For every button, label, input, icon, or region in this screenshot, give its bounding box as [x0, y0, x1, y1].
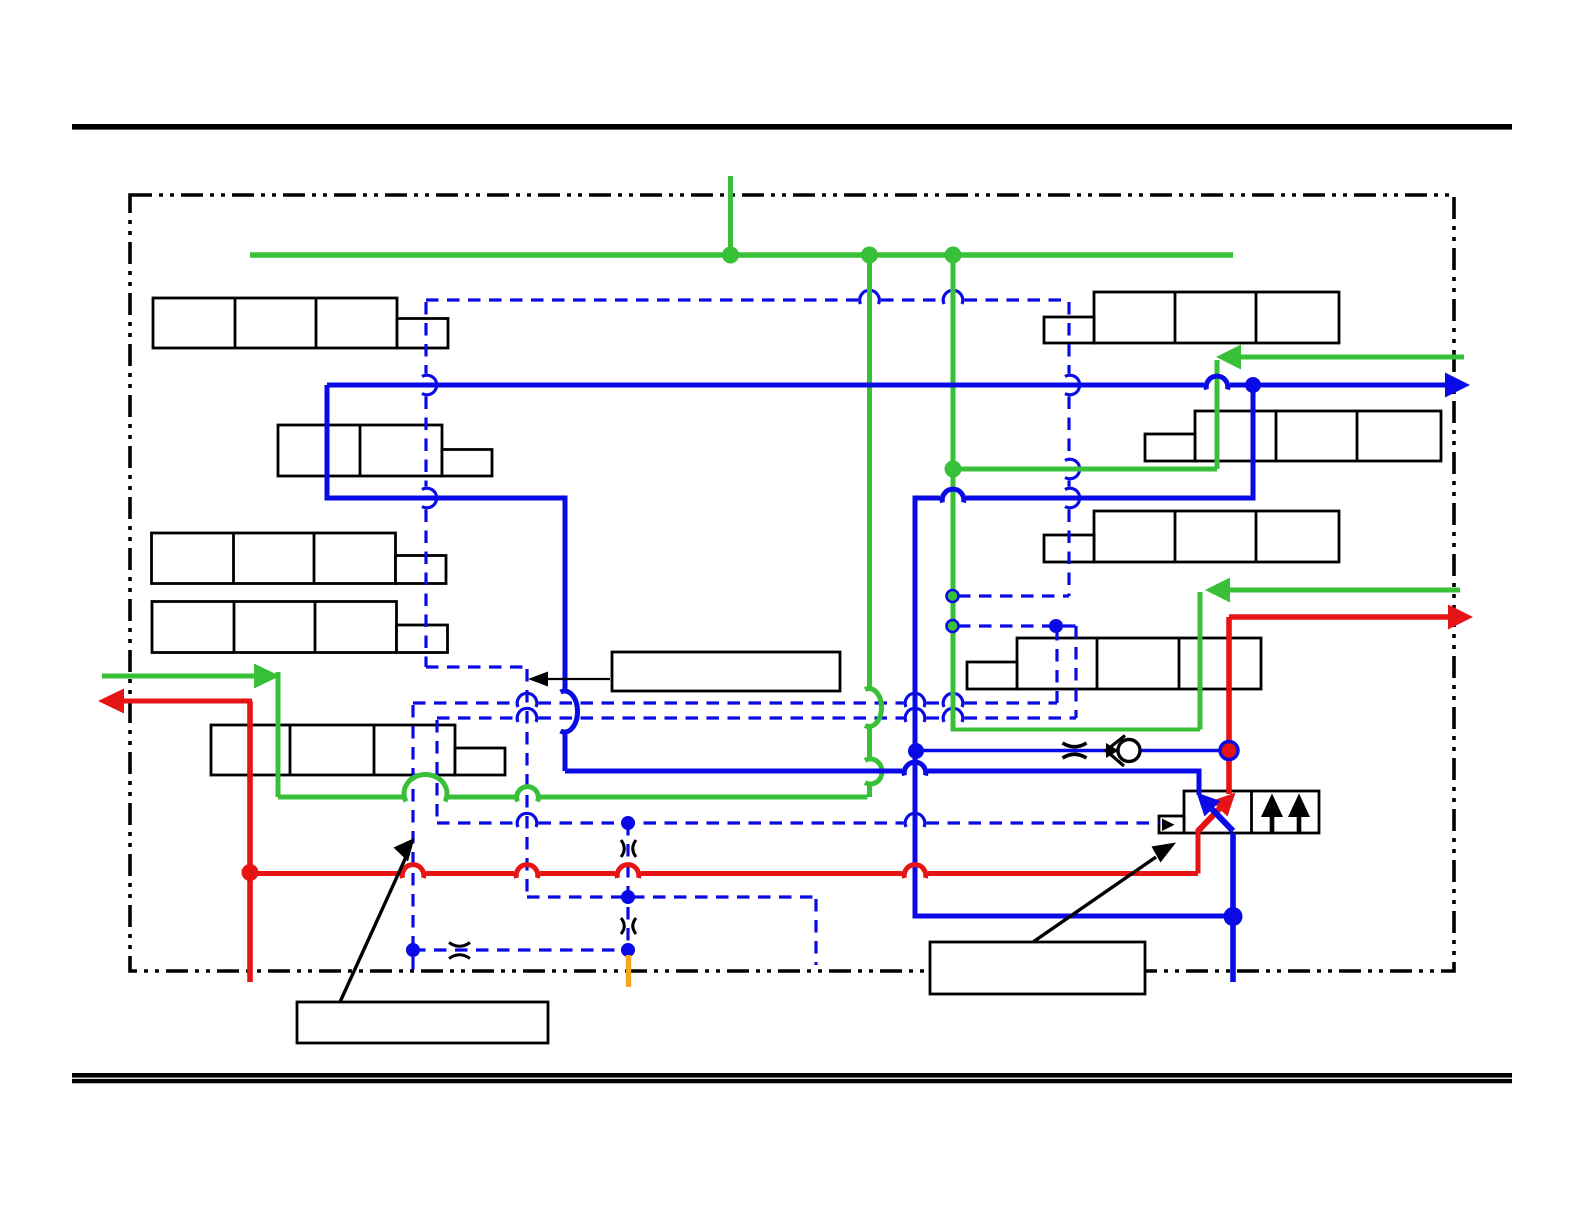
green junction dot C [945, 247, 962, 264]
wire dashed solenoid row y823 [437, 821, 516, 824]
solid hop arcs of dashed network [422, 290, 1080, 827]
red return line right [1229, 614, 1449, 620]
label box RB4 [1017, 638, 1261, 689]
wire dashed row y950 [413, 948, 628, 951]
check valve CV1 [1118, 740, 1140, 762]
orange drain stub [626, 955, 631, 987]
green riser hop over dashed rows [865, 689, 882, 727]
hop x426 over blue y498 [422, 488, 437, 508]
green run y469 [953, 467, 1217, 472]
wire dashed drop x1057 [1055, 628, 1058, 703]
wire dashed node row y626 [958, 624, 1076, 627]
wire dashed node row y596 [958, 594, 1069, 597]
wire dashed row y897 [527, 895, 816, 898]
label box LB1 [153, 298, 397, 348]
wire dashed vertical x426 [424, 302, 427, 374]
green return line 2 right [1229, 588, 1460, 593]
green junction dot B [861, 247, 878, 264]
valve V1 crossed flow: red diagonal [1198, 804, 1224, 831]
wire dashed drop x816 [814, 899, 817, 965]
orifice O1 on check line [1063, 743, 1087, 758]
label box LBB1 [297, 1002, 548, 1043]
hops y823 over x527 x915 [517, 813, 537, 827]
blue right branch from dot y385 [966, 385, 1253, 498]
blue junction dot x915 y751 [908, 743, 924, 759]
node dot x628 y823 [621, 816, 635, 830]
label box LB4 [152, 602, 397, 653]
green junction dot D [945, 461, 962, 478]
blue check-valve line y750.5 [915, 749, 1229, 753]
hop x1069 over blue y498 [1065, 488, 1080, 508]
valve V1 body [1184, 791, 1319, 833]
valve V1 crossed flow: blue diagonal [1207, 804, 1233, 831]
blue x565 hop arc over dashed rows [561, 691, 578, 732]
blue y498 hop over green x953 [942, 489, 964, 502]
label box LBmid [612, 652, 840, 691]
blue branch left riser path [327, 385, 565, 690]
leader arrow to valve-position dashed line [547, 678, 610, 680]
label box RB2 [1195, 411, 1441, 461]
wire dashed long row y703 [413, 701, 516, 704]
orifice O4 horizontal x459 y950 [449, 943, 470, 959]
red-blue junction dot at check line [1220, 742, 1238, 760]
green sensor node dot F [947, 620, 959, 632]
blue junction dot x1233 y916 [1224, 907, 1243, 926]
hops y703 over x527 x915 x953 [517, 693, 537, 707]
orifice O3 vertical x628 y926 [621, 918, 636, 934]
green return line top right [1240, 355, 1464, 360]
green junction dot A [722, 247, 739, 264]
label box LB5 [211, 725, 455, 775]
label box LBB2 [930, 942, 1145, 994]
bottom double rule [72, 1073, 1512, 1078]
wire dashed vertical x413 [411, 705, 414, 971]
leader arrow from LBB2 to valve [1033, 857, 1156, 942]
red outlet arrowhead left [98, 689, 124, 714]
blue junction dot y385 [1245, 377, 1261, 393]
wire dashed vertical x527 [525, 669, 528, 897]
hops y718 over x527 x915 x953 [517, 708, 537, 722]
red junction dot x250 y872 [242, 864, 259, 881]
red outlet line left [123, 699, 252, 704]
green riser x1217 [1215, 360, 1220, 469]
red riser from valve top [1226, 617, 1232, 794]
label box RB1 [1094, 292, 1339, 343]
wire dashed long row y718 [437, 716, 516, 719]
node dot x413 y950 [406, 943, 420, 957]
green inlet arrowhead [254, 664, 280, 689]
valve V1 pilot box [1159, 816, 1184, 833]
dash-dot-dot unit border [130, 195, 1454, 971]
green riser hop over blue y771 [865, 759, 882, 784]
green run y729.5 [951, 728, 1201, 732]
blue return arrowhead right [1445, 373, 1470, 398]
green hop y797 over x413 x437 [404, 774, 447, 801]
hop x1069 over blue y385 [1065, 375, 1080, 395]
node dot x628 y950 [621, 943, 635, 957]
green return arrowhead 1 [1216, 345, 1241, 370]
green hop y797 over x527 [517, 787, 539, 802]
wire dashed node column x628 [626, 823, 629, 950]
green main header y255 [250, 252, 1233, 258]
blue main line y385 [327, 383, 1204, 388]
top rule [72, 124, 1512, 130]
label box LB3 [152, 533, 396, 584]
red hops y873.5 [402, 865, 424, 878]
hop y300 over green x953 [943, 290, 963, 304]
green stub from top border [728, 176, 733, 255]
green run y797 [540, 795, 868, 800]
blue y771 hop over x915 [904, 762, 926, 775]
red main run y873.5 [250, 871, 400, 876]
leader arrow from LBB1 to drain column [340, 857, 406, 1002]
red left riser x250 [247, 701, 253, 982]
wire dashed right column x1069 [1067, 302, 1070, 374]
green sensor node dot E [947, 590, 959, 602]
wire dashed drop x1076 [1074, 626, 1077, 718]
green riser x953 [951, 255, 956, 728]
red return arrowhead right [1448, 605, 1473, 630]
green riser x1200 [1198, 592, 1203, 730]
hop y300 over green x869 [860, 290, 880, 304]
node dot x1056 y626 [1049, 619, 1063, 633]
label box RB3 [1094, 511, 1339, 562]
label box LB2 [278, 425, 442, 476]
valve V1 spring-cell arrows [1261, 794, 1310, 833]
green return arrowhead 2 [1205, 578, 1230, 603]
red riser into valve bottom left [1196, 829, 1201, 874]
green left riser x278 [276, 672, 281, 797]
valve V1 pilot triangle [1162, 819, 1175, 832]
green inlet line left [102, 674, 255, 679]
wire dashed top run y300 [426, 298, 858, 301]
hop x1069 over green y469 [1065, 459, 1080, 479]
orifice O2 vertical x628 y848 [621, 840, 636, 857]
hop x426 over blue y385 [422, 375, 437, 395]
node dot x628 y897 [621, 890, 635, 904]
wire dashed vertical x437 [435, 720, 438, 822]
green riser x869 [867, 255, 872, 687]
wire dashed stub y667 [426, 665, 527, 668]
blue valve drop x1233 [1230, 833, 1236, 982]
blue hop y385 over green x1217 [1206, 376, 1228, 389]
